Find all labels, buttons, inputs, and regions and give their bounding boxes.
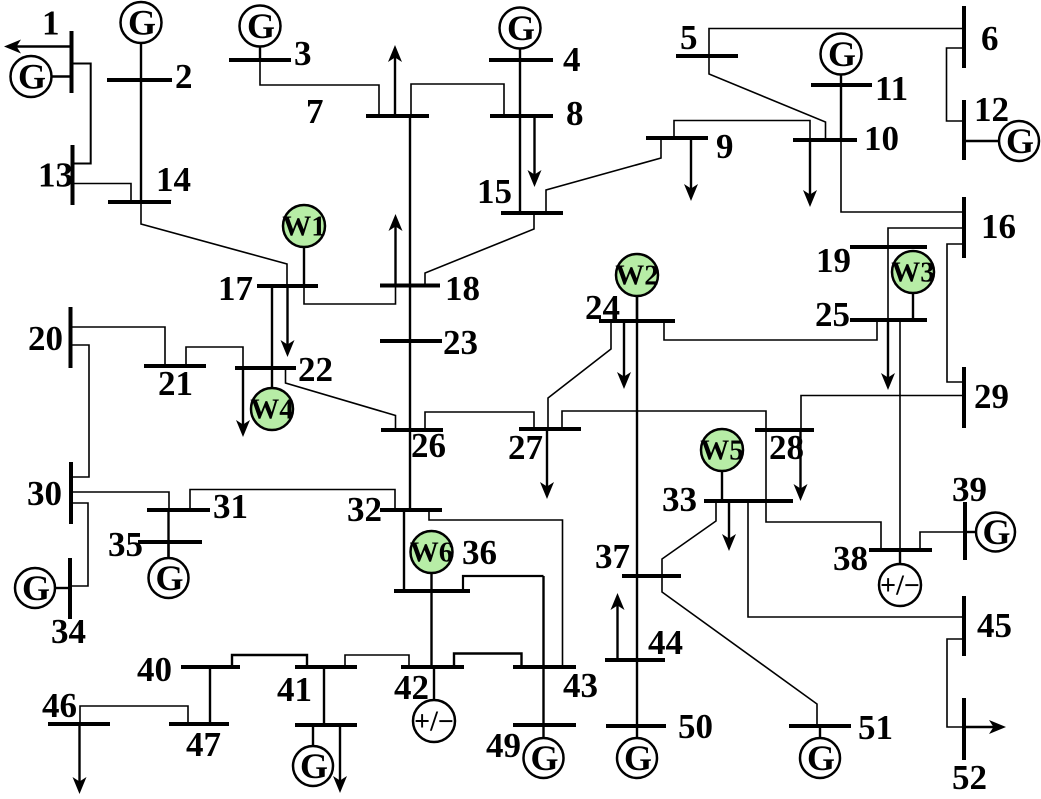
- bus 12: [962, 100, 966, 160]
- bus 17: [257, 284, 318, 288]
- wire 30-34: [70, 503, 88, 586]
- bus 47: [169, 722, 229, 726]
- generator G at bus 39: [976, 513, 1015, 552]
- svg-text:W2: W2: [615, 260, 659, 292]
- svg-text:2: 2: [175, 57, 193, 96]
- bus 8: [490, 114, 553, 118]
- wire 3-7: [260, 60, 379, 116]
- wind farm W2 at bus 24: [616, 254, 658, 296]
- wire W2-24-37-44-50 trunk: [636, 296, 638, 726]
- wire 36-43: [463, 576, 544, 591]
- load arrow bus 48: [339, 725, 341, 782]
- wire 6-12: [947, 48, 965, 121]
- wire 16-29: [947, 244, 964, 382]
- wire 10-16: [841, 140, 964, 212]
- bus 7: [366, 114, 429, 118]
- svg-text:15: 15: [477, 172, 512, 211]
- wind farm W6 at bus 36: [411, 531, 453, 573]
- wind farm W4 at bus 22: [251, 388, 293, 430]
- load arrow bus 25: [887, 320, 889, 379]
- wire 26-27: [425, 412, 534, 430]
- wire 41-42: [345, 655, 409, 667]
- bus 14: [108, 200, 171, 204]
- load arrow bus 17-22: [286, 286, 288, 346]
- svg-text:22: 22: [298, 350, 333, 389]
- wire 36-43-49 trunk: [542, 576, 544, 725]
- generator G at bus 34: [15, 568, 55, 608]
- flow arrow bus 7 up: [394, 57, 396, 117]
- flow arrow bus 44 up: [616, 605, 618, 661]
- bus 30: [69, 462, 73, 524]
- bus 32: [380, 508, 442, 512]
- svg-text:21: 21: [158, 364, 193, 403]
- wire 29-28: [801, 396, 964, 431]
- wire W2 stem: [636, 296, 638, 321]
- bus 37: [622, 574, 681, 578]
- wind farm W1 at bus 17: [283, 205, 325, 247]
- generator G at bus 11: [821, 34, 862, 75]
- svg-text:G: G: [1006, 121, 1034, 161]
- wire 28-38: [766, 430, 881, 550]
- svg-text:25: 25: [815, 295, 850, 334]
- svg-text:43: 43: [563, 666, 598, 705]
- wire 31-35-G trunk: [167, 510, 169, 558]
- bus 35: [138, 540, 202, 544]
- svg-text:G: G: [530, 738, 558, 778]
- svg-text:G: G: [807, 738, 835, 778]
- bus 48: [295, 723, 357, 727]
- svg-text:1: 1: [42, 4, 60, 43]
- wire 17-22-W4 trunk: [271, 286, 273, 368]
- svg-text:W4: W4: [250, 394, 294, 426]
- svg-text:10: 10: [864, 119, 899, 158]
- bus 4: [489, 58, 553, 62]
- wire 36-42 trunk: [430, 591, 432, 667]
- svg-text:32: 32: [347, 490, 382, 529]
- wire G3 stem: [259, 47, 261, 61]
- svg-text:37: 37: [595, 537, 630, 576]
- bus 31: [147, 508, 210, 512]
- bus 24: [599, 319, 675, 323]
- svg-text:W6: W6: [410, 537, 454, 569]
- svg-text:26: 26: [411, 426, 446, 465]
- svg-text:27: 27: [508, 428, 543, 467]
- bus 44: [605, 658, 665, 662]
- svg-text:35: 35: [108, 525, 143, 564]
- bus 49: [513, 723, 576, 727]
- wire 14-17: [141, 202, 287, 286]
- bus 3: [229, 58, 291, 62]
- svg-text:40: 40: [137, 650, 172, 689]
- bus 18: [380, 284, 440, 288]
- load arrow bus 10: [809, 140, 811, 196]
- bus 33: [704, 499, 793, 503]
- svg-text:16: 16: [981, 207, 1016, 246]
- wire 46-47: [80, 706, 188, 724]
- wire 7-8: [411, 84, 504, 116]
- SVC +/- at bus 42: [413, 700, 455, 742]
- svg-text:12: 12: [974, 90, 1009, 129]
- bus 42: [401, 665, 464, 669]
- wire G35 stem: [167, 542, 169, 558]
- wire W5 stem: [721, 471, 723, 501]
- bus 16: [962, 197, 966, 258]
- wire 40-47 trunk: [209, 667, 211, 724]
- wire G51 stem: [819, 726, 821, 738]
- generator G at bus 51: [800, 738, 840, 778]
- wire 30-31: [71, 492, 169, 510]
- wire 5-6: [709, 29, 963, 57]
- flow arrow bus 18 up: [394, 226, 396, 286]
- bus 23: [380, 339, 442, 343]
- svg-text:45: 45: [977, 606, 1012, 645]
- bus 6: [962, 6, 966, 68]
- wire 41-48 trunk: [323, 667, 325, 725]
- svg-text:W5: W5: [700, 435, 744, 467]
- bus 27: [519, 427, 581, 431]
- wire 31-32: [190, 490, 395, 511]
- svg-text:46: 46: [42, 686, 77, 725]
- svg-text:5: 5: [680, 18, 698, 57]
- svg-text:28: 28: [769, 428, 804, 467]
- svg-text:G: G: [18, 57, 46, 97]
- svg-text:G: G: [247, 6, 275, 46]
- generator G at bus 35: [149, 558, 189, 598]
- svg-text:24: 24: [585, 288, 620, 327]
- wire 15-9: [546, 138, 661, 213]
- svg-text:G: G: [828, 34, 856, 74]
- generator G at bus 4: [500, 8, 541, 49]
- wire 27-28: [562, 411, 766, 430]
- wire G39 stem: [965, 531, 976, 533]
- wire 20-21: [71, 327, 166, 366]
- svg-text:33: 33: [662, 480, 697, 519]
- bus 45: [962, 596, 966, 656]
- wire 25-38: [899, 320, 901, 550]
- load arrow bus 8: [533, 116, 535, 176]
- bus 11: [811, 83, 872, 87]
- wire G48 stem: [312, 725, 314, 746]
- svg-text:20: 20: [28, 319, 63, 358]
- bus 20: [69, 307, 73, 368]
- wire W4 stem: [271, 368, 273, 389]
- wire G50 stem: [636, 726, 638, 738]
- svg-text:41: 41: [277, 670, 312, 709]
- svg-text:47: 47: [186, 725, 221, 764]
- generator G below bus 41: [293, 746, 333, 786]
- wire W1 stem: [303, 247, 305, 286]
- bus 36: [394, 589, 470, 593]
- bus 39: [963, 502, 967, 560]
- wire W3 stem: [912, 293, 914, 320]
- bus 46: [48, 722, 110, 726]
- wire 21-22: [186, 347, 243, 368]
- svg-text:51: 51: [858, 708, 893, 747]
- load arrow bus 24: [623, 321, 625, 378]
- svg-text:13: 13: [38, 156, 73, 195]
- bus 34: [68, 558, 72, 619]
- load arrow bus 22: [242, 368, 244, 426]
- bus 1: [70, 31, 74, 93]
- wind farm W5 at bus 33: [701, 429, 743, 471]
- svg-text:4: 4: [563, 40, 581, 79]
- load arrow bus 46: [78, 724, 80, 783]
- wire 5-10: [709, 56, 826, 140]
- wire 38-39: [920, 532, 965, 550]
- svg-text:G: G: [982, 512, 1010, 552]
- svg-text:39: 39: [952, 470, 987, 509]
- wind farm W3 at bus 25: [892, 251, 934, 293]
- load arrow bus 28: [799, 430, 801, 490]
- svg-text:11: 11: [875, 69, 908, 108]
- svg-text:9: 9: [716, 127, 734, 166]
- wire W6 stem: [430, 573, 432, 591]
- bus 2: [107, 78, 172, 82]
- wire 32-36 trunk: [403, 510, 405, 591]
- svg-text:W3: W3: [891, 257, 935, 289]
- bus 50: [606, 724, 666, 728]
- wire 45-52: [947, 639, 964, 727]
- svg-text:G: G: [155, 558, 183, 598]
- bus 29: [962, 367, 966, 428]
- load arrow bus 9: [690, 138, 692, 190]
- svg-text:G: G: [300, 746, 328, 786]
- svg-text:6: 6: [981, 19, 999, 58]
- svg-text:8: 8: [566, 94, 584, 133]
- svg-text:23: 23: [443, 323, 478, 362]
- wire 7-18-23-26-32 trunk: [409, 116, 411, 510]
- wire 16-19: [888, 228, 964, 247]
- svg-text:14: 14: [156, 160, 191, 199]
- wire G4 stem / 4-8-15: [519, 49, 521, 214]
- wire 20-30: [71, 345, 90, 477]
- bus 40: [181, 665, 240, 669]
- wire 13-14: [74, 184, 131, 203]
- bus 15: [501, 211, 563, 215]
- svg-text:42: 42: [394, 668, 429, 707]
- bus 28: [755, 428, 814, 432]
- wire 19-25: [887, 247, 889, 320]
- svg-text:30: 30: [27, 474, 62, 513]
- svg-text:G: G: [128, 3, 156, 43]
- svg-text:19: 19: [816, 241, 851, 280]
- bus 52: [962, 698, 966, 760]
- bus 25: [850, 318, 927, 322]
- svg-text:38: 38: [833, 539, 868, 578]
- load arrow bus 52 right: [964, 726, 995, 728]
- svg-text:17: 17: [218, 269, 253, 308]
- wire G11 stem / 11-10: [840, 75, 842, 141]
- svg-text:44: 44: [648, 623, 683, 662]
- svg-text:29: 29: [974, 377, 1009, 416]
- svg-text:18: 18: [445, 269, 480, 308]
- load arrow bus 1: [16, 45, 72, 47]
- wire 40-41 connector: [232, 655, 307, 667]
- bus 21: [144, 364, 206, 368]
- wire 32-43: [429, 510, 563, 667]
- generator G at bus 1: [11, 56, 52, 97]
- wire G49 stem: [542, 725, 544, 738]
- svg-text:52: 52: [952, 758, 987, 794]
- bus 26: [381, 428, 443, 432]
- wire 24-27: [548, 321, 611, 429]
- svg-text:3: 3: [294, 34, 312, 73]
- generator G at bus 2: [121, 2, 162, 43]
- svg-text:+/−: +/−: [414, 707, 454, 738]
- generator G at bus 50: [617, 738, 657, 778]
- bus 9: [646, 136, 708, 140]
- wire G12 stem: [964, 140, 999, 142]
- svg-text:31: 31: [213, 487, 248, 526]
- wire 42-43 connector: [454, 654, 522, 668]
- svg-text:34: 34: [51, 612, 86, 651]
- svg-text:+/−: +/−: [880, 571, 920, 602]
- load arrow bus 27: [546, 429, 548, 488]
- wire 1-13: [73, 64, 91, 164]
- wire SVC42 stem: [433, 667, 435, 700]
- wire 15-18: [425, 213, 534, 285]
- generator G at bus 12: [999, 121, 1039, 161]
- wire SVC38 stem: [899, 550, 901, 564]
- svg-text:50: 50: [678, 707, 713, 746]
- wire 24-25: [664, 320, 877, 340]
- svg-text:G: G: [507, 8, 535, 48]
- svg-text:49: 49: [486, 726, 521, 765]
- wire G2 stem / 2-14: [140, 43, 142, 202]
- svg-text:G: G: [624, 738, 652, 778]
- bus 41: [295, 665, 357, 669]
- generator G at bus 3: [240, 6, 281, 47]
- wire 33-37-51: [662, 501, 817, 726]
- wire 22-26: [286, 368, 396, 430]
- bus 10: [793, 138, 857, 142]
- svg-text:7: 7: [306, 92, 324, 131]
- svg-text:G: G: [22, 568, 50, 608]
- svg-text:36: 36: [462, 533, 497, 572]
- bus 22: [235, 366, 296, 370]
- bus 51: [789, 724, 851, 728]
- bus 38: [869, 548, 932, 552]
- bus 43: [513, 665, 576, 669]
- generator G at bus 49: [524, 738, 564, 778]
- svg-text:W1: W1: [282, 211, 326, 243]
- bus 13: [71, 145, 75, 205]
- SVC +/- at bus 38: [879, 564, 921, 606]
- bus 19: [850, 245, 927, 249]
- wire G34 stem: [55, 587, 70, 589]
- wire 33-45: [748, 501, 964, 617]
- wire 17-18: [304, 286, 396, 305]
- wire 9-10: [674, 121, 810, 141]
- load arrow bus 33: [728, 501, 730, 540]
- wire G1 stem: [52, 75, 70, 77]
- bus 5: [676, 54, 738, 58]
